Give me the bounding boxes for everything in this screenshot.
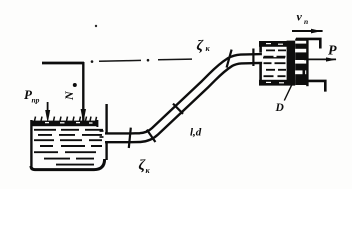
svg-text:κ: κ (146, 166, 151, 175)
svg-text:D: D (275, 102, 285, 114)
svg-text:v: v (297, 10, 303, 24)
svg-text:P: P (328, 44, 337, 59)
svg-text:N: N (62, 90, 76, 101)
svg-text:п: п (304, 17, 308, 26)
svg-text:l,d: l,d (190, 127, 202, 139)
svg-text:ζ: ζ (197, 38, 205, 54)
svg-text:κ: κ (206, 44, 211, 53)
svg-text:пр: пр (32, 96, 40, 105)
